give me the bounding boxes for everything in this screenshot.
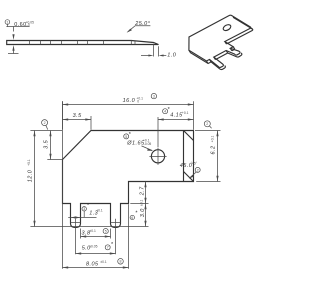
svg-text:±0.1: ±0.1 [89, 229, 96, 233]
main view: leg centerlines [76, 219, 116, 255]
svg-text:*: * [87, 203, 90, 209]
balloon near top-left corner [42, 120, 48, 130]
isometric view: part top face outline [189, 15, 251, 67]
svg-text:3: 3 [83, 207, 85, 211]
svg-text:3: 3 [153, 95, 155, 99]
svg-text:–0: –0 [26, 23, 30, 27]
svg-text:°+5°: °+5° [191, 162, 198, 166]
svg-text:3.5: 3.5 [44, 139, 50, 148]
svg-text:+0.1: +0.1 [96, 209, 103, 213]
svg-text:±0.1: ±0.1 [140, 199, 144, 206]
svg-text:8: 8 [120, 260, 122, 264]
dimension 6.2 right height [195, 131, 221, 182]
svg-text:*: * [168, 107, 171, 113]
main view: part outline [63, 131, 194, 228]
dimension 3.8 between legs [81, 229, 111, 239]
svg-text:2: 2 [206, 122, 208, 126]
dimension 4.15 hole to edge [158, 107, 194, 147]
svg-text:7: 7 [107, 246, 109, 250]
dimension 1.3 leg width [68, 203, 103, 219]
svg-text:2.7: 2.7 [140, 186, 146, 196]
dimension 1.0 tip [141, 44, 177, 59]
svg-text:2: 2 [197, 168, 199, 172]
dimension 3.5 chamfer width [63, 113, 92, 130]
svg-text:±0.1: ±0.1 [100, 260, 107, 264]
svg-text:–0.05: –0.05 [143, 142, 151, 146]
main view: hole [149, 148, 166, 165]
side view bar [7, 41, 159, 45]
svg-text:5: 5 [105, 229, 107, 233]
svg-text:3.5: 3.5 [73, 113, 82, 119]
svg-text:2: 2 [44, 121, 46, 125]
svg-text:6: 6 [131, 216, 133, 220]
main view: tab bend line [183, 131, 185, 182]
balloon near 16.0 [151, 93, 156, 98]
dimension 0.60 thickness [6, 20, 34, 53]
svg-text:8.05: 8.05 [86, 262, 99, 268]
isometric view: hole [222, 23, 232, 31]
svg-text:12.0: 12.0 [27, 169, 33, 182]
dimension 3.5 chamfer height [44, 131, 62, 160]
dimension 45.0 degree chamfer [180, 162, 200, 179]
svg-text:+0.1: +0.1 [211, 136, 215, 143]
svg-text:+0.1: +0.1 [182, 111, 189, 115]
svg-text:16.0: 16.0 [123, 98, 136, 104]
dimension 16.0 overall width [63, 96, 194, 129]
balloon 1 (thickness note) [5, 20, 10, 27]
dimension 8.05 lower width [63, 101, 129, 269]
svg-text:1: 1 [6, 20, 8, 24]
svg-text:3.0: 3.0 [140, 208, 146, 217]
svg-text:*: * [129, 132, 132, 138]
svg-text:0: 0 [137, 99, 139, 103]
svg-text:1.0: 1.0 [167, 52, 176, 58]
dimension 12.0 overall height [27, 131, 148, 227]
svg-text:*: * [111, 242, 114, 248]
svg-text:*: * [135, 211, 138, 217]
svg-text:6.2: 6.2 [211, 146, 217, 155]
dimension 5.0 leg centers [76, 242, 116, 255]
svg-text:+0.1: +0.1 [27, 159, 31, 166]
bend tick lines on side view [30, 41, 136, 45]
dimension 3.0 leg length [130, 199, 147, 226]
svg-text:±0.05: ±0.05 [89, 244, 97, 248]
main view: 45deg corner chamfer lines [184, 131, 194, 182]
svg-text:5: 5 [125, 135, 127, 139]
dimension 25.0 degree bend angle [127, 21, 151, 33]
isometric view: thickness bottom edges [189, 17, 253, 69]
svg-text:4: 4 [164, 110, 166, 114]
main view: leg bend chord lines [71, 222, 121, 224]
dimension diameter 1.65 hole [124, 132, 153, 151]
balloon near 6.2 [204, 121, 211, 128]
dimension 2.7 step height [130, 182, 148, 204]
